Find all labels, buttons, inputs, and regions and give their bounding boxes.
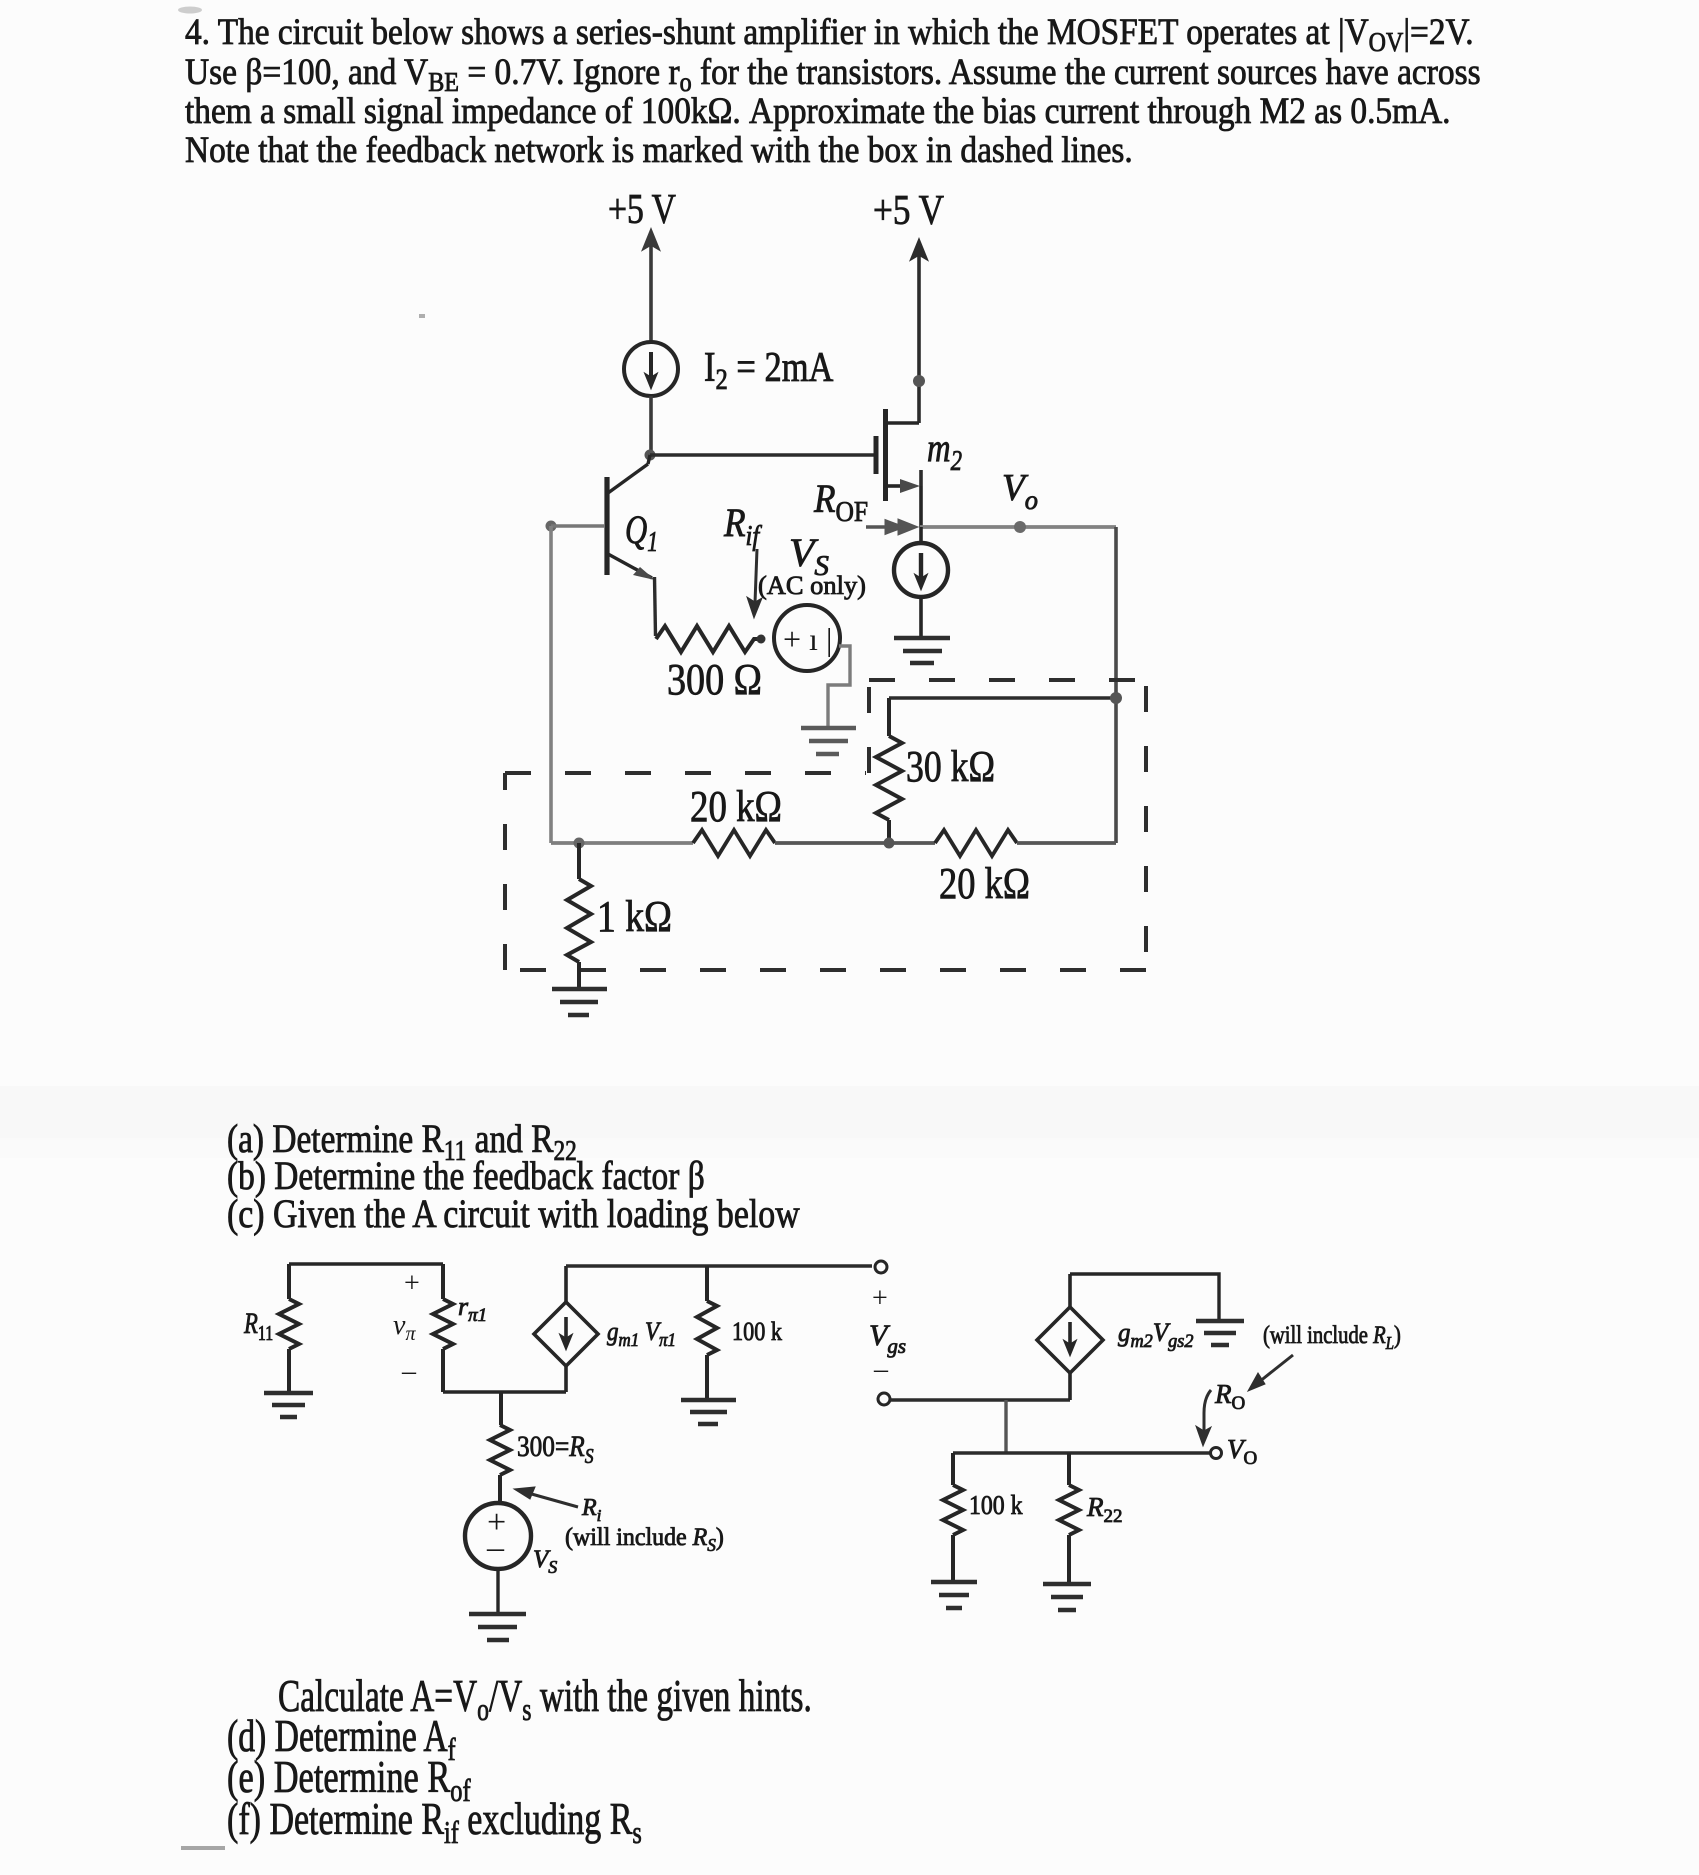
svg-text:(will include RL): (will include RL) <box>1263 1321 1401 1353</box>
wire 30k top <box>889 696 1116 700</box>
svg-text:20 kΩ: 20 kΩ <box>939 859 1030 908</box>
wire Vs to ground <box>496 1569 499 1613</box>
arrow from RL label <box>1248 1355 1293 1391</box>
resistor R11 <box>279 1264 299 1392</box>
svg-text:gm2Vgs2: gm2Vgs2 <box>1118 1318 1193 1353</box>
node collector/gate <box>645 450 656 461</box>
node Vo <box>1014 521 1026 533</box>
svg-text:Ri: Ri <box>581 1495 602 1525</box>
current source I2 <box>624 342 678 396</box>
svg-text:(will include RS): (will include RS) <box>565 1524 724 1556</box>
arrow ROF to node <box>866 519 918 535</box>
svg-text:them a small signal impedance: them a small signal impedance of 100kΩ. … <box>185 89 1451 131</box>
ground (100k) <box>681 1400 736 1424</box>
svg-text:(b) Determine the feedback fac: (b) Determine the feedback factor β <box>227 1153 705 1198</box>
svg-text:1 kΩ: 1 kΩ <box>597 892 672 940</box>
svg-text:Q1: Q1 <box>625 507 658 558</box>
svg-text:Rif: Rif <box>723 501 763 551</box>
scan streak bottom-left <box>181 1846 225 1850</box>
resistor 1k <box>567 843 591 988</box>
svg-text:300 Ω: 300 Ω <box>667 654 762 703</box>
svg-text:30 kΩ: 30 kΩ <box>906 741 995 790</box>
MOSFET m2 <box>876 409 921 527</box>
svg-text:VS: VS <box>533 1546 557 1577</box>
resistor 300 ohm <box>656 626 759 652</box>
scan band artifact <box>178 7 425 319</box>
svg-text:+: + <box>872 1283 888 1314</box>
node on right rail <box>913 375 925 387</box>
svg-text:R22: R22 <box>1086 1492 1123 1527</box>
node feedback left <box>574 838 585 849</box>
svg-text:300=RS: 300=RS <box>517 1430 594 1468</box>
svg-text:rπ1: rπ1 <box>458 1292 487 1326</box>
svg-text:+: + <box>404 1268 420 1299</box>
terminal Vo <box>1211 1448 1222 1459</box>
resistor R22 <box>1059 1453 1079 1583</box>
resistor 30k <box>876 698 902 843</box>
dependent source gm2 Vgs2 <box>1037 1274 1103 1400</box>
terminal Vgs bottom <box>878 1393 890 1405</box>
ground (VS) <box>801 728 856 754</box>
svg-text:RO: RO <box>1214 1379 1245 1414</box>
source VS circle <box>774 605 840 671</box>
svg-text:+5 V: +5 V <box>873 187 944 234</box>
svg-text:VO: VO <box>1227 1434 1257 1469</box>
wire Vo line <box>953 1451 1210 1454</box>
wire left vertical (base to feedback) <box>549 526 553 843</box>
ground (1k) <box>552 989 607 1015</box>
svg-text:(c) Given the A circuit with l: (c) Given the A circuit with loading bel… <box>227 1192 800 1236</box>
svg-text:(f) Determine Rif excluding Rs: (f) Determine Rif excluding Rs <box>227 1793 642 1851</box>
arrow Ri <box>514 1487 578 1507</box>
svg-text:100 k: 100 k <box>732 1317 783 1346</box>
wire right side down <box>1114 527 1118 843</box>
svg-text:ROF: ROF <box>813 477 868 527</box>
resistor rpi1 <box>433 1264 453 1392</box>
wire VS to ground <box>828 646 850 726</box>
feedback bottom wire with 20k resistors <box>551 830 1116 856</box>
svg-text:R11: R11 <box>243 1306 273 1346</box>
dependent source gm1 Vpi1 <box>534 1266 598 1392</box>
arrow Rif <box>747 549 762 618</box>
svg-text:I2 = 2mA: I2 = 2mA <box>704 345 834 396</box>
ground (R22) <box>1043 1584 1091 1610</box>
svg-text:–: – <box>401 1356 417 1387</box>
ground (gm2 top) <box>1196 1321 1244 1345</box>
arrow RO to Vo terminal <box>1196 1390 1211 1446</box>
svg-text:Vgs: Vgs <box>869 1319 906 1358</box>
node 300ohm/VS <box>757 635 766 644</box>
wire I2 to node <box>649 396 653 455</box>
svg-text:gm1 Vπ1: gm1 Vπ1 <box>607 1318 676 1350</box>
node feedback right <box>884 838 895 849</box>
node 30k top right <box>1110 692 1122 704</box>
svg-text:–: – <box>873 1354 889 1385</box>
svg-text:+ ı |: + ı | <box>783 621 832 657</box>
transistor Q1 <box>607 455 655 580</box>
feedback box dashed <box>505 680 1155 970</box>
svg-text:+5 V: +5 V <box>608 187 676 233</box>
svg-text:m2: m2 <box>927 425 962 477</box>
svg-text:100 k: 100 k <box>969 1490 1023 1521</box>
+5V rail left arrow <box>643 229 660 342</box>
svg-text:Vo: Vo <box>1002 467 1038 515</box>
+5V rail right arrow <box>911 239 928 423</box>
vertical connector <box>1004 1400 1007 1453</box>
wire top right <box>566 1264 872 1267</box>
node base <box>546 521 557 532</box>
ground (below m2 source CS) <box>894 638 950 663</box>
current source below m2 <box>894 527 948 636</box>
wire Vo <box>920 525 1116 529</box>
resistor 100k right <box>943 1453 963 1581</box>
svg-text:–: – <box>486 1529 505 1566</box>
wire base <box>551 524 605 528</box>
svg-text:Note that the feedback network: Note that the feedback network is marked… <box>185 128 1133 170</box>
source Vs <box>465 1503 531 1569</box>
resistor 300=Rs <box>490 1392 510 1504</box>
svg-text:vπ: vπ <box>393 1310 416 1345</box>
ground (100k right) <box>931 1582 977 1608</box>
terminal Vgs top <box>875 1261 887 1273</box>
wire emitter down <box>655 577 656 636</box>
svg-text:20 kΩ: 20 kΩ <box>690 782 782 831</box>
wire node to gate <box>650 453 874 457</box>
resistor 100k <box>697 1266 717 1399</box>
bottom wire <box>443 1390 566 1393</box>
ground (R11) <box>264 1393 313 1417</box>
wire Vgs- to gm2 <box>890 1398 1070 1401</box>
wire top left <box>289 1262 443 1265</box>
problem statement text <box>185 10 1481 170</box>
svg-text:(AC only): (AC only) <box>758 571 866 600</box>
wire gm2 top to ground <box>1070 1274 1219 1320</box>
ground (Vs) <box>469 1614 526 1640</box>
